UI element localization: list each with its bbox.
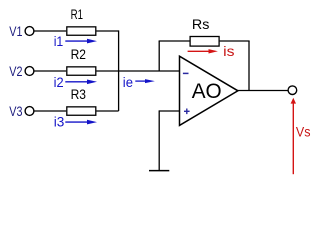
svg-text:R2: R2 <box>71 47 86 62</box>
svg-text:AO: AO <box>192 79 222 103</box>
svg-text:i1: i1 <box>54 34 64 50</box>
svg-text:V2: V2 <box>9 64 22 80</box>
svg-text:i2: i2 <box>54 75 64 91</box>
svg-text:R1: R1 <box>71 7 83 22</box>
svg-text:i3: i3 <box>54 115 65 131</box>
svg-text:ie: ie <box>123 75 133 91</box>
svg-text:R3: R3 <box>71 87 86 102</box>
svg-text:is: is <box>223 43 234 59</box>
svg-text:Rs: Rs <box>192 16 210 32</box>
svg-text:V1: V1 <box>9 24 22 40</box>
svg-text:Vs: Vs <box>296 123 311 139</box>
svg-text:V3: V3 <box>9 104 22 120</box>
